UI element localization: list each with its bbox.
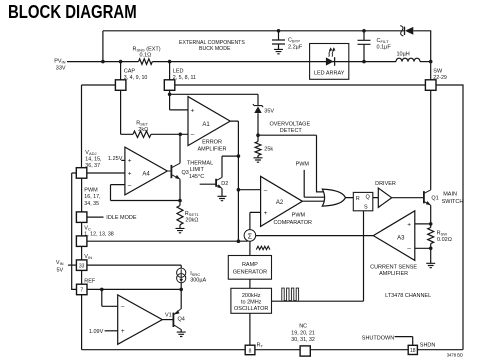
svg-text:RAMP: RAMP — [242, 262, 258, 268]
svg-text:VADJ: VADJ — [85, 150, 96, 156]
svg-text:D2: D2 — [221, 181, 228, 187]
svg-text:14, 15,: 14, 15, — [85, 156, 101, 162]
svg-text:–: – — [264, 187, 268, 194]
svg-text:18: 18 — [410, 348, 416, 354]
svg-text:REF: REF — [84, 278, 96, 284]
svg-text:Q4: Q4 — [178, 316, 185, 322]
svg-text:2kΩ: 2kΩ — [138, 127, 148, 133]
svg-text:0.02Ω: 0.02Ω — [437, 237, 452, 243]
svg-text:OSCILLATOR: OSCILLATOR — [234, 306, 268, 312]
svg-text:+: + — [264, 210, 268, 217]
svg-text:VIN: VIN — [56, 260, 64, 266]
svg-text:R: R — [356, 196, 360, 202]
svg-text:34, 35: 34, 35 — [84, 201, 99, 207]
svg-text:RSW: RSW — [437, 230, 448, 236]
svg-text:+: + — [121, 328, 125, 335]
svg-text:22-29: 22-29 — [433, 75, 447, 81]
svg-text:33: 33 — [79, 263, 85, 269]
svg-text:A3: A3 — [397, 236, 405, 242]
svg-text:1.25V: 1.25V — [108, 156, 123, 162]
svg-text:A4: A4 — [142, 171, 150, 177]
svg-text:+: + — [191, 107, 195, 114]
svg-text:EXTERNAL COMPONENTS: EXTERNAL COMPONENTS — [179, 40, 245, 46]
svg-text:20kΩ: 20kΩ — [185, 218, 198, 224]
svg-text:19, 20, 21: 19, 20, 21 — [291, 330, 315, 336]
svg-text:Q3: Q3 — [182, 170, 189, 176]
svg-text:2.2µF: 2.2µF — [288, 44, 303, 50]
svg-text:IDLE MODE: IDLE MODE — [106, 215, 137, 221]
svg-text:PWM: PWM — [84, 188, 98, 194]
svg-text:DRIVER: DRIVER — [375, 181, 396, 187]
svg-text:35V: 35V — [264, 108, 274, 114]
svg-text:SHUTDOWN: SHUTDOWN — [362, 335, 394, 341]
svg-text:+: + — [128, 170, 132, 177]
svg-text:A2: A2 — [276, 200, 284, 206]
svg-text:LIMIT: LIMIT — [190, 167, 205, 173]
svg-text:Σ: Σ — [248, 233, 253, 240]
svg-text:–: – — [191, 132, 195, 139]
svg-text:NC: NC — [299, 324, 307, 330]
svg-text:3478 BD: 3478 BD — [447, 353, 463, 358]
svg-text:Q1: Q1 — [431, 196, 438, 202]
svg-text:PWM: PWM — [296, 162, 310, 168]
svg-text:CFILT: CFILT — [377, 38, 389, 44]
svg-text:145°C: 145°C — [189, 174, 204, 180]
svg-text:RSNS (EXT): RSNS (EXT) — [133, 46, 161, 52]
svg-text:SW: SW — [433, 69, 443, 75]
svg-text:AMPLIFIER: AMPLIFIER — [197, 147, 226, 153]
svg-text:RSET1: RSET1 — [185, 211, 200, 217]
svg-text:RSET: RSET — [136, 121, 148, 127]
svg-text:to 2MHz: to 2MHz — [241, 300, 262, 306]
svg-text:+: + — [128, 158, 132, 165]
svg-text:CURRENT SENSE: CURRENT SENSE — [370, 264, 417, 270]
svg-text:SHDN: SHDN — [420, 343, 436, 349]
svg-text:16, 17,: 16, 17, — [84, 194, 100, 200]
svg-text:AMPLIFIER: AMPLIFIER — [379, 271, 408, 277]
svg-text:MAIN: MAIN — [443, 192, 457, 198]
svg-text:CAP: CAP — [124, 69, 136, 75]
svg-text:2, 5, 8, 11: 2, 5, 8, 11 — [173, 75, 196, 81]
svg-text:8: 8 — [249, 348, 252, 354]
svg-text:30, 31, 32: 30, 31, 32 — [291, 337, 315, 343]
svg-text:ISRC: ISRC — [190, 271, 200, 277]
svg-text:VIN: VIN — [84, 254, 92, 260]
svg-text:7: 7 — [80, 288, 83, 294]
svg-text:RT: RT — [257, 342, 264, 348]
svg-text:A1: A1 — [202, 122, 210, 128]
svg-text:Q: Q — [366, 194, 371, 200]
svg-text:LED: LED — [173, 69, 184, 75]
svg-text:OVERVOLTAGE: OVERVOLTAGE — [269, 121, 310, 127]
svg-text:PVIN: PVIN — [54, 58, 65, 64]
svg-text:–: – — [121, 304, 125, 311]
svg-text:SWITCH: SWITCH — [442, 199, 464, 205]
svg-text:V1: V1 — [165, 313, 172, 319]
svg-text:33V: 33V — [56, 66, 66, 72]
svg-text:DETECT: DETECT — [280, 128, 303, 134]
svg-text:25k: 25k — [264, 147, 273, 153]
svg-text:1.09V: 1.09V — [89, 329, 104, 335]
svg-text:THERMAL: THERMAL — [187, 161, 213, 167]
svg-text:0.1µF: 0.1µF — [377, 45, 392, 51]
svg-text:BUCK MODE: BUCK MODE — [199, 46, 231, 52]
svg-text:–: – — [407, 246, 411, 253]
svg-text:–: – — [128, 182, 132, 189]
svg-text:CBYP: CBYP — [288, 38, 300, 44]
svg-text:ERROR: ERROR — [202, 140, 222, 146]
svg-text:COMPARATOR: COMPARATOR — [273, 220, 312, 226]
svg-text:LED ARRAY: LED ARRAY — [314, 71, 345, 77]
svg-text:5V: 5V — [57, 267, 64, 273]
svg-text:PWM: PWM — [292, 212, 306, 218]
svg-text:36, 37: 36, 37 — [85, 163, 100, 169]
svg-text:+: + — [407, 221, 411, 228]
svg-text:10µH: 10µH — [397, 51, 410, 57]
svg-text:300µA: 300µA — [190, 277, 206, 283]
svg-text:200kHz: 200kHz — [242, 293, 261, 299]
svg-text:GENERATOR: GENERATOR — [233, 270, 267, 276]
svg-text:1, 12, 13, 38: 1, 12, 13, 38 — [84, 231, 114, 237]
svg-text:3, 4, 9, 10: 3, 4, 9, 10 — [124, 75, 148, 81]
svg-text:LT3478 CHANNEL: LT3478 CHANNEL — [385, 293, 431, 299]
svg-text:S: S — [364, 205, 368, 211]
svg-text:0.1Ω: 0.1Ω — [140, 53, 152, 59]
